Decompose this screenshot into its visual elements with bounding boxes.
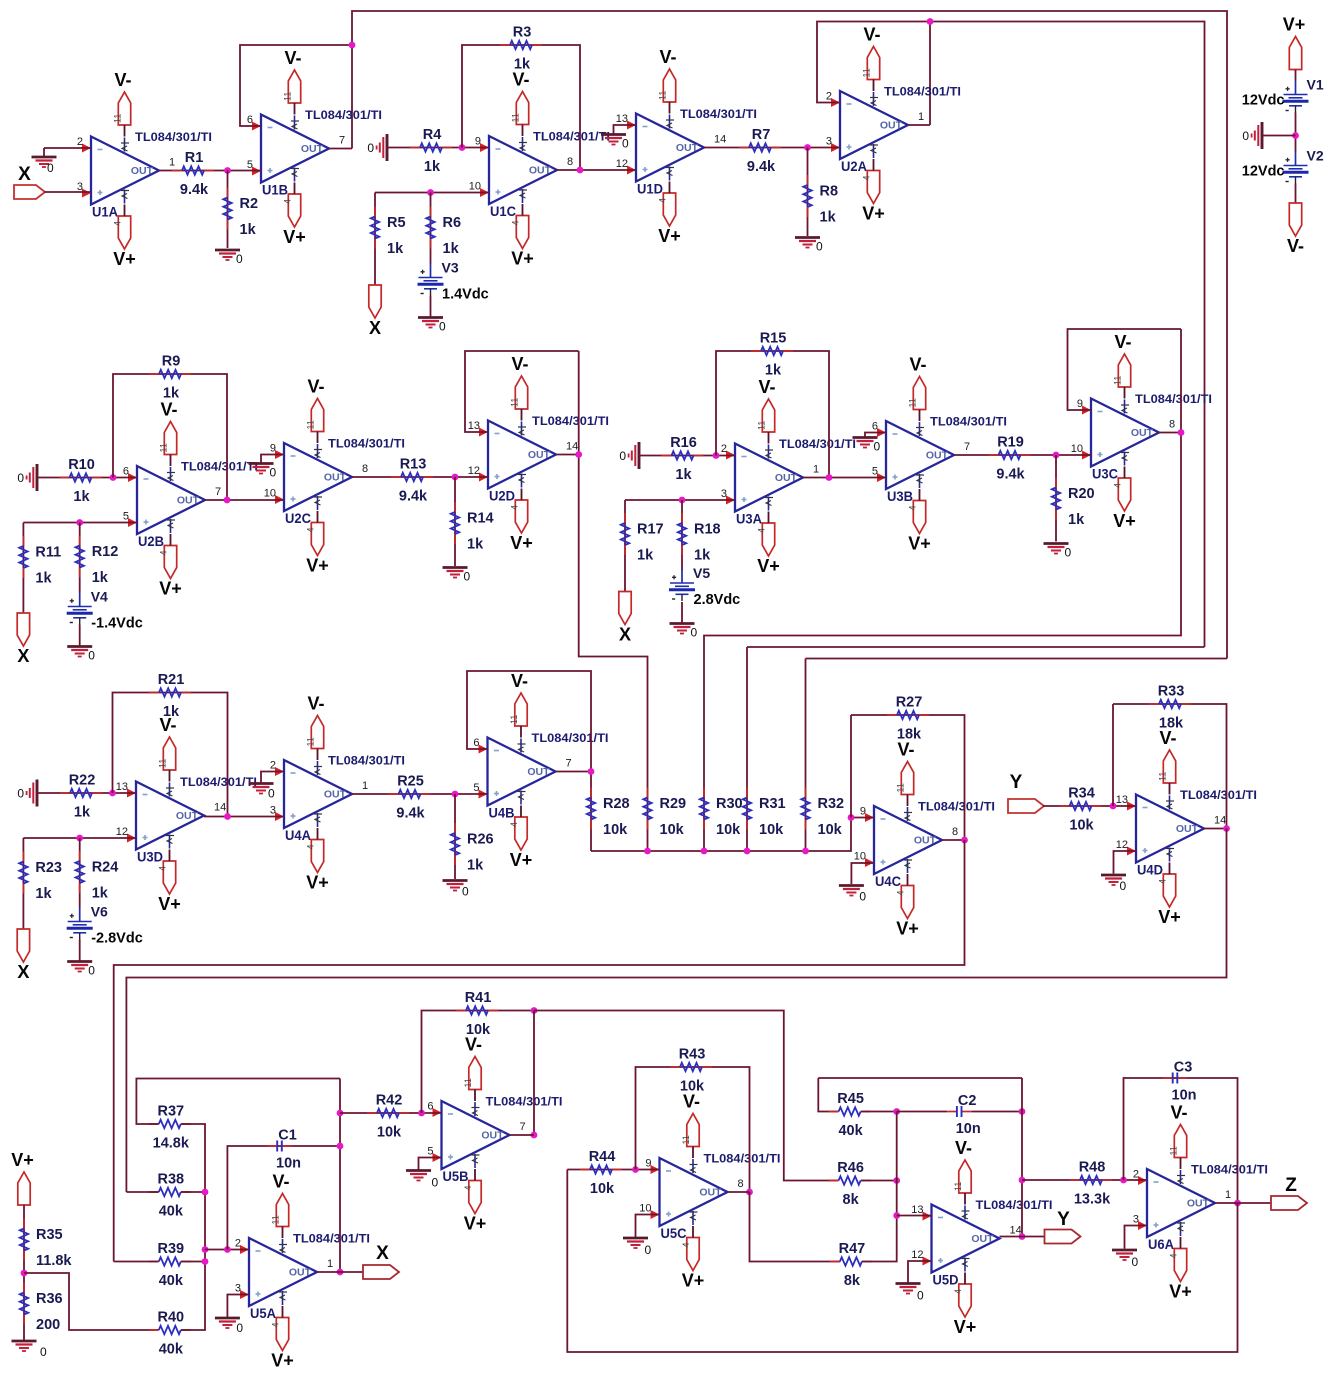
svg-text:R28: R28 [603,796,630,812]
wire [454,477,456,566]
wire [181,1191,205,1193]
wire [818,1077,1022,1079]
svg-text:TL084/301/TI: TL084/301/TI [930,415,1007,429]
svg-text:V+: V+ [954,1317,977,1337]
svg-text:0: 0 [17,471,24,485]
svg-text:U1B: U1B [262,183,288,198]
wire [124,125,126,137]
wire [317,749,319,761]
svg-text:11: 11 [159,443,169,452]
resistor R28 [587,788,630,839]
power port V+ [511,216,534,269]
wire [1125,1226,1148,1249]
junction node U2D.out [575,451,582,458]
svg-text:V+: V+ [11,1150,34,1170]
svg-text:1k: 1k [820,210,837,226]
wire [227,1146,340,1250]
junction node U5D.inv [893,1212,900,1219]
wire [557,169,636,171]
power port V- [1169,1103,1188,1158]
ground [619,442,639,469]
svg-text:3: 3 [1133,1214,1139,1226]
svg-text:C3: C3 [1174,1060,1193,1076]
wire [1262,135,1296,137]
junction node U3D.out [224,813,231,820]
junction [337,1143,344,1150]
svg-text:11: 11 [757,421,767,430]
power port V+ [509,817,532,870]
junction [701,848,708,855]
resistor R3 [500,25,542,73]
power port V+ [306,523,329,576]
svg-text:4: 4 [896,890,906,895]
wire [522,125,524,137]
svg-text:V-: V- [1159,728,1176,748]
power port V+ [1113,478,1136,531]
svg-text:TL084/301/TI: TL084/301/TI [532,414,609,428]
op-amp U2D [468,414,609,504]
svg-text:U5A: U5A [250,1306,276,1321]
wire [768,432,770,444]
junction [893,1177,900,1184]
wire [851,715,965,840]
wire [1124,1078,1238,1203]
svg-text:14: 14 [1214,815,1226,827]
svg-text:14.8k: 14.8k [153,1136,190,1152]
junction node U4C.out [961,837,968,844]
svg-text:V+: V+ [306,873,329,893]
svg-text:V-: V- [758,377,775,397]
svg-text:2: 2 [235,1238,241,1250]
svg-text:4: 4 [113,221,123,226]
svg-text:10n: 10n [956,1121,981,1137]
svg-text:10: 10 [264,488,276,500]
svg-text:R35: R35 [36,1227,63,1243]
wire [1055,455,1057,542]
svg-text:11: 11 [306,737,316,746]
svg-text:U4C: U4C [875,874,901,889]
svg-text:0: 0 [236,252,243,266]
wire [704,329,1181,798]
svg-text:U3C: U3C [1092,467,1118,482]
wire [851,863,874,884]
op-amp U3B [872,415,1007,505]
wire [1169,863,1171,875]
power port V- [306,377,325,432]
svg-text:V-: V- [159,715,176,735]
resistor R29 [643,788,686,839]
svg-text:OUT: OUT [324,472,347,484]
resistor R39 [149,1241,191,1289]
svg-text:10k: 10k [603,822,628,838]
svg-text:0: 0 [432,1176,439,1190]
wire [747,646,1205,648]
svg-text:0: 0 [816,240,823,254]
svg-text:4: 4 [862,175,872,180]
svg-text:V+: V+ [862,204,885,224]
junction node X / R42 [337,1110,344,1117]
svg-text:R46: R46 [837,1160,864,1176]
svg-text:12: 12 [468,465,480,477]
svg-text:V+: V+ [1113,511,1136,531]
wire [79,523,81,593]
svg-text:1k: 1k [92,886,109,902]
power port V+ [463,1181,486,1234]
junction node U1C.out [577,167,584,174]
svg-text:9: 9 [475,136,481,148]
junction [644,848,651,855]
svg-text:V5: V5 [693,565,710,581]
svg-text:V+: V+ [1283,15,1306,35]
wire [873,159,875,171]
svg-text:R20: R20 [1068,486,1095,502]
svg-text:OUT: OUT [528,449,551,461]
svg-text:6: 6 [473,737,479,749]
svg-text:0: 0 [268,787,275,801]
resistor R23 [19,852,62,903]
svg-text:V-: V- [465,1035,482,1055]
op-amp U1D [616,107,757,197]
svg-text:8: 8 [567,156,573,168]
power port V+ [908,501,931,554]
power port V+ (row4 bias) [11,1150,34,1205]
wire [728,1191,750,1193]
svg-text:U4B: U4B [489,806,515,821]
wire [181,1124,205,1330]
svg-text:Y: Y [1057,1209,1070,1230]
svg-text:1: 1 [327,1258,333,1270]
svg-text:10k: 10k [759,822,784,838]
svg-text:V+: V+ [464,1214,487,1234]
wire [1159,432,1181,434]
junction [452,791,459,798]
svg-text:TL084/301/TI: TL084/301/TI [486,1095,563,1109]
svg-text:V+: V+ [1169,1282,1192,1302]
resistor R12 [76,536,119,587]
wire [681,602,683,624]
wire [897,1111,948,1113]
svg-text:2: 2 [77,136,83,148]
op-amp U4A [270,754,405,844]
power port V+ [510,500,533,553]
ground [795,238,823,254]
wire [422,1011,535,1114]
ground [67,647,95,663]
svg-text:0: 0 [367,141,374,155]
ground [17,780,37,807]
svg-text:R18: R18 [694,522,721,538]
power port V+ [757,523,780,576]
junction [1053,452,1060,459]
power port V- [953,1138,972,1193]
svg-text:R44: R44 [589,1149,616,1165]
resistor R24 [76,851,119,902]
wire [1113,704,1227,829]
resistor R36 [20,1283,63,1334]
wire [521,409,523,421]
svg-text:14: 14 [566,441,578,453]
svg-text:OUT: OUT [676,142,699,154]
svg-text:3: 3 [721,488,727,500]
svg-text:12: 12 [1116,839,1128,851]
wire [907,795,909,807]
svg-text:12Vdc: 12Vdc [1242,164,1285,180]
svg-text:V-: V- [1114,332,1131,352]
wire [474,1090,476,1102]
svg-text:1: 1 [362,780,368,792]
svg-text:V-: V- [307,694,324,714]
svg-text:V+: V+ [113,249,136,269]
wire [861,1180,897,1182]
junction [531,1132,538,1139]
ground [17,464,37,491]
ground [443,881,470,899]
junction node U5C.out [746,1189,753,1196]
svg-text:U4A: U4A [285,828,311,843]
resistor R21 [149,672,191,720]
wire [907,874,909,886]
svg-text:R9: R9 [162,354,181,370]
svg-text:V-: V- [512,70,529,90]
wire [534,1011,838,1181]
svg-text:1k: 1k [387,241,404,257]
capacitor C1 [268,1128,302,1172]
op-amp U4B [473,731,608,821]
wire [768,512,770,524]
svg-text:12Vdc: 12Vdc [1242,93,1285,109]
junction node Y out [1019,1233,1026,1240]
svg-text:U1A: U1A [92,205,118,220]
svg-text:4: 4 [1113,483,1123,488]
wire [136,1079,340,1125]
svg-text:1: 1 [918,111,924,123]
op-amp U2A [826,85,961,175]
svg-text:8: 8 [952,826,958,838]
svg-text:13.3k: 13.3k [1074,1192,1111,1208]
power port V- [1158,728,1177,783]
svg-text:1k: 1k [675,467,692,483]
resistor R9 [149,354,191,402]
wire [556,454,579,456]
wire [964,1273,966,1285]
svg-text:13: 13 [911,1204,923,1216]
svg-text:5: 5 [473,782,479,794]
svg-text:2: 2 [1133,1169,1139,1181]
wire [374,193,376,286]
wire [942,839,965,841]
svg-text:11: 11 [158,759,168,768]
svg-text:10n: 10n [276,1156,301,1172]
svg-text:0: 0 [40,1345,47,1359]
wire [692,1147,694,1159]
wire [240,45,352,126]
svg-text:11: 11 [1113,376,1123,385]
wire [930,22,1205,648]
wire [971,1111,1022,1113]
voltage source V5 2.8Vdc [669,565,740,608]
wire [1114,851,1137,874]
svg-text:1: 1 [169,157,175,169]
op-amp U2C [264,437,405,527]
wire [1204,828,1227,830]
op-amp U5D [911,1198,1052,1288]
wire [556,771,592,773]
svg-text:OUT: OUT [1176,823,1199,835]
wire [294,183,296,195]
junction [1110,803,1117,810]
power port V- [757,377,776,432]
svg-text:U3D: U3D [137,850,163,865]
svg-text:4: 4 [509,822,519,827]
svg-text:1k: 1k [443,241,460,257]
junction node U2A.out [927,18,934,25]
svg-text:9: 9 [270,443,276,455]
svg-text:200: 200 [36,1317,60,1333]
svg-text:2: 2 [826,91,832,103]
svg-text:OUT: OUT [1131,427,1154,439]
svg-text:14: 14 [714,134,726,146]
svg-text:1k: 1k [424,159,441,175]
svg-text:4: 4 [463,1185,473,1190]
svg-text:10k: 10k [377,1125,402,1141]
wire [169,770,171,782]
wire [126,1191,158,1193]
wire [636,1067,750,1192]
svg-text:4: 4 [159,550,169,555]
svg-text:R13: R13 [400,457,427,473]
wire [352,793,488,795]
svg-text:V-: V- [114,70,131,90]
svg-text:TL084/301/TI: TL084/301/TI [1135,392,1212,406]
svg-text:R4: R4 [423,127,442,143]
svg-text:40k: 40k [159,1273,184,1289]
resistor R19 [989,435,1031,483]
op-amp U5C [639,1152,780,1242]
wire [467,671,591,798]
voltage source V1 12Vdc [1242,77,1324,113]
wire [23,837,136,839]
op-amp U3A [721,437,856,527]
wire [807,148,809,237]
svg-text:9.4k: 9.4k [396,806,425,822]
port X (row2 bias) [17,613,29,666]
power port V- [509,671,528,726]
op-amp U6A [1133,1163,1268,1253]
wire [746,798,748,852]
resistor R25 [389,774,431,822]
op-amp U5A [235,1232,370,1322]
wire [639,455,735,457]
svg-text:0: 0 [645,1243,652,1257]
wire [205,1249,249,1251]
power port V+ [1169,1249,1192,1302]
svg-text:R36: R36 [36,1291,63,1307]
svg-text:11: 11 [1169,1146,1179,1155]
junction [21,1270,28,1277]
wire [113,693,228,817]
svg-text:11: 11 [953,1182,963,1191]
resistor R1 [172,150,214,198]
svg-text:TL084/301/TI: TL084/301/TI [884,85,961,99]
svg-text:6: 6 [247,114,253,126]
svg-text:TL084/301/TI: TL084/301/TI [533,130,610,144]
svg-text:4: 4 [658,198,668,203]
wire [317,511,319,523]
junction [427,189,434,196]
wire [169,850,171,862]
junction [76,835,83,842]
junction node U3A.out [826,474,833,481]
wire [23,522,137,524]
svg-text:V+: V+ [908,534,931,554]
svg-text:TL084/301/TI: TL084/301/TI [328,754,405,768]
resistor R31 [743,788,786,839]
svg-text:TL084/301/TI: TL084/301/TI [180,775,257,789]
wire [520,806,522,818]
svg-text:R7: R7 [752,127,771,143]
svg-text:12: 12 [911,1249,923,1261]
wire [205,499,284,501]
wire [522,204,524,216]
junction [1120,1177,1127,1184]
svg-text:9: 9 [1077,398,1083,410]
svg-text:8: 8 [362,463,368,475]
wire [317,432,319,444]
svg-text:0: 0 [622,137,629,151]
svg-text:R23: R23 [35,860,62,876]
svg-text:X: X [376,1243,389,1264]
svg-text:0: 0 [47,161,54,175]
resistor R13 [391,457,433,505]
wire [170,534,172,546]
ground [249,784,276,801]
svg-text:10: 10 [1071,443,1083,455]
resistor R47 [830,1241,872,1289]
wire [703,798,705,852]
svg-text:13: 13 [616,113,628,125]
junction node X out [337,1269,344,1276]
wire [1022,1236,1045,1238]
svg-text:14: 14 [214,802,226,814]
power port V+ [283,194,306,247]
svg-text:TL084/301/TI: TL084/301/TI [1191,1163,1268,1177]
svg-text:1k: 1k [73,489,90,505]
svg-text:R8: R8 [820,184,839,200]
wire [614,125,637,135]
svg-text:R39: R39 [157,1241,184,1257]
wire [465,351,579,432]
svg-text:1k: 1k [1068,512,1085,528]
wire [806,658,1228,660]
wire [861,1111,897,1113]
ground [406,1171,439,1190]
power port V- [113,70,132,125]
svg-text:V+: V+ [510,533,533,553]
svg-text:1: 1 [1225,1189,1231,1201]
wire [126,829,1226,1193]
svg-text:TL084/301/TI: TL084/301/TI [305,108,382,122]
svg-text:0: 0 [859,890,866,904]
resistor R33 [1149,684,1191,732]
wire [352,476,488,478]
svg-text:3: 3 [826,136,832,148]
svg-text:OUT: OUT [177,495,200,507]
resistor R46 [829,1160,871,1208]
wire [692,1226,694,1238]
ground [853,438,881,454]
wire [352,11,1227,659]
wire [282,1306,284,1318]
